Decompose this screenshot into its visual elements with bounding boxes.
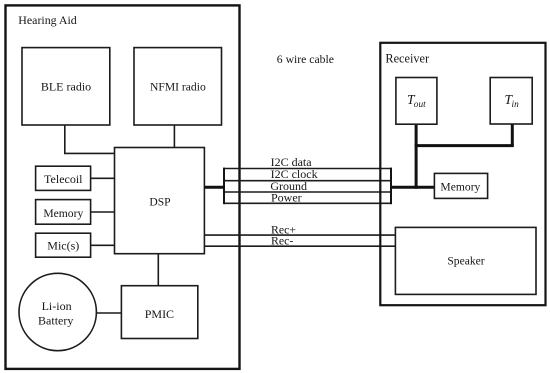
svg-text:in: in <box>512 100 520 110</box>
svg-text:PMIC: PMIC <box>145 307 174 321</box>
thick wire T_out to T_in <box>415 144 514 147</box>
svg-text:Memory: Memory <box>43 207 83 220</box>
speaker block <box>395 227 536 294</box>
mic(s) block <box>36 233 91 257</box>
cable wire I2C clock <box>224 180 391 182</box>
NFMI radio block <box>134 48 222 125</box>
wire Rec+ <box>204 234 395 236</box>
svg-text:Power: Power <box>271 191 302 205</box>
svg-text:6 wire cable: 6 wire cable <box>277 53 334 66</box>
wire Rec- <box>204 245 395 247</box>
wire battery to PMIC <box>96 312 121 314</box>
hearing aid enclosure <box>6 5 240 369</box>
svg-text:Telecoil: Telecoil <box>44 172 83 186</box>
wire BLE radio to DSP <box>65 125 115 153</box>
svg-text:Battery: Battery <box>38 313 73 327</box>
thick wire junction to T_out <box>415 124 418 189</box>
thick wire cable to receiver memory <box>390 186 434 189</box>
thick wire T_in drop <box>511 124 514 146</box>
wire NFMI radio to DSP <box>173 125 175 148</box>
T_in block <box>490 78 532 125</box>
memory (hearing aid) block <box>36 200 91 225</box>
svg-text:Speaker: Speaker <box>447 254 484 267</box>
telecoil block <box>36 166 91 190</box>
svg-text:DSP: DSP <box>149 196 170 209</box>
thick wire DSP to cable <box>204 186 225 189</box>
BLE radio block <box>22 48 110 125</box>
T_out block <box>396 78 437 125</box>
svg-text:BLE radio: BLE radio <box>41 80 91 94</box>
wire mic(s) to DSP <box>91 244 115 246</box>
receiver enclosure <box>380 43 545 305</box>
cable left end cap <box>223 168 225 205</box>
wire telecoil to DSP <box>91 177 115 179</box>
cable wire I2C data <box>224 168 391 170</box>
memory (receiver) block <box>434 173 487 198</box>
DSP block <box>115 148 205 254</box>
svg-text:Rec-: Rec- <box>271 234 293 248</box>
svg-text:Li-ion: Li-ion <box>42 299 72 313</box>
cable wire ground <box>224 191 391 193</box>
svg-text:out: out <box>414 100 426 110</box>
svg-text:Receiver: Receiver <box>385 51 429 65</box>
svg-text:Hearing Aid: Hearing Aid <box>18 13 77 27</box>
svg-text:NFMI radio: NFMI radio <box>150 81 206 94</box>
svg-text:Memory: Memory <box>440 181 480 194</box>
li-ion battery <box>19 273 96 350</box>
cable right end cap <box>390 168 392 205</box>
svg-text:Mic(s): Mic(s) <box>47 239 79 253</box>
cable wire power <box>224 202 391 204</box>
wire DSP to PMIC <box>157 254 159 286</box>
wire memory to DSP <box>91 211 115 213</box>
PMIC block <box>121 286 197 339</box>
